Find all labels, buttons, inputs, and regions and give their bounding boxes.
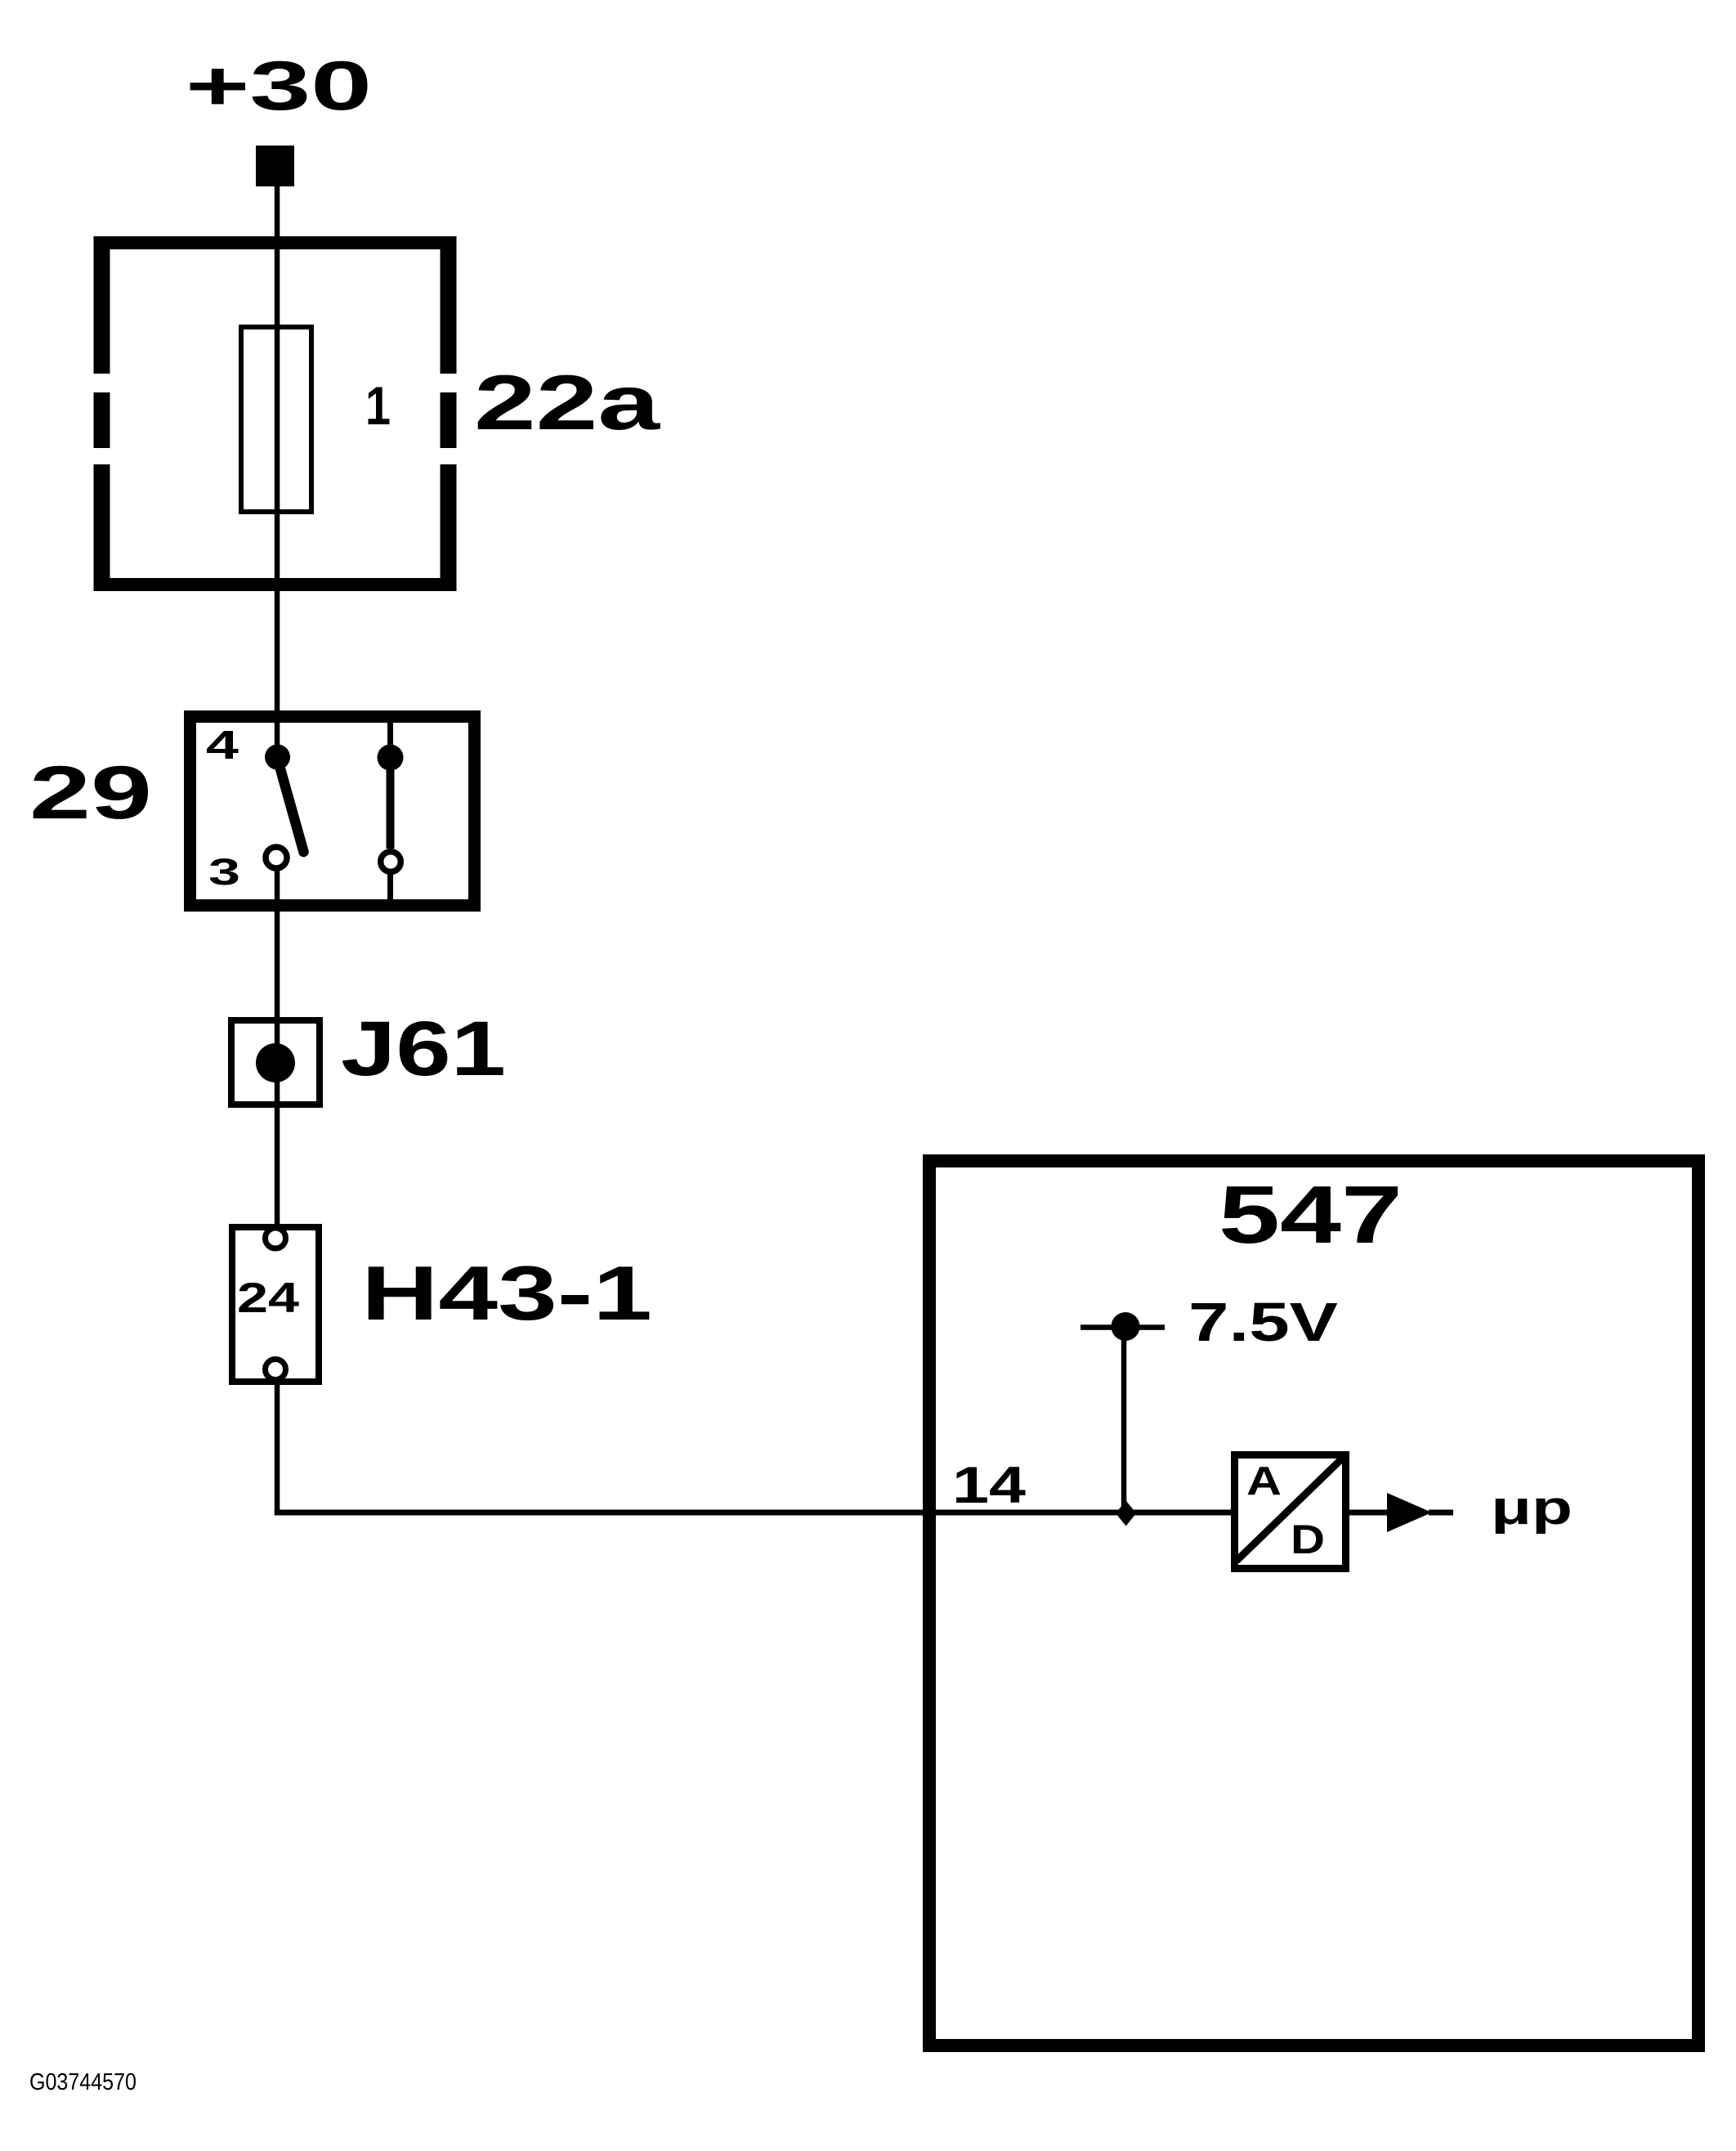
wire from A/D to arrow [1349,1510,1387,1516]
svg-text:3: 3 [208,851,240,893]
switch 29 box [190,717,475,906]
svg-text:29: 29 [29,751,152,835]
svg-text:J61: J61 [341,1006,506,1092]
second pole link bar [387,758,395,849]
pin 3 label [208,851,240,893]
wire from +30 terminal to fuse box [275,185,280,238]
svg-text:H43-1: H43-1 [361,1250,652,1336]
second pole open contact [381,852,401,872]
svg-text:μp: μp [1491,1481,1573,1535]
label H43-1 [361,1250,652,1336]
switch 29 label [29,751,152,835]
connector pin 24 label [237,1275,299,1322]
svg-text:1: 1 [365,375,391,436]
switch pin 4 contact dot [265,745,290,770]
svg-text:24: 24 [237,1275,299,1322]
battery positive terminal +30 [256,146,294,186]
control module 547 box [929,1161,1698,2046]
pin 4 label [206,724,239,768]
switch pin 3 open contact [266,847,287,868]
wire from 7.5V supply to signal node [1121,1326,1127,1508]
label J61 [341,1006,506,1092]
arrowhead to microprocessor [1387,1493,1432,1532]
pin 14 label [952,1457,1026,1514]
junction J61 dot [256,1043,295,1082]
svg-text:7.5V: 7.5V [1188,1292,1338,1353]
connector H43-1 top pin circle [266,1228,286,1248]
wire from J61 to connector H43-1 [275,1063,280,1226]
node +30 label [186,47,372,125]
svg-text:A: A [1246,1459,1282,1503]
second pole contact dot [378,745,404,771]
wire from H43-1 down to corner [275,1381,280,1515]
svg-text:G03744570: G03744570 [29,2069,136,2095]
svg-text:D: D [1291,1517,1325,1562]
wire stub after arrowhead [1429,1510,1453,1516]
A/D converter label A [1246,1459,1282,1503]
A/D converter label D [1291,1517,1325,1562]
connector H43-1 bottom pin circle [266,1360,286,1380]
svg-text:4: 4 [206,724,239,768]
second pole top stub wire [387,723,393,759]
A/D converter U1 box [1235,1455,1346,1569]
microprocessor label μp [1491,1481,1573,1535]
7.5V supply junction dot [1112,1312,1140,1341]
junction diamond on pin 14 wire [1116,1501,1136,1526]
fuse label 22a [474,360,661,446]
7.5V supply tick line [1081,1324,1165,1330]
svg-text:+30: +30 [186,47,372,125]
svg-text:547: 547 [1219,1169,1403,1261]
wire corner to module 547 pin 14 [275,1510,1233,1516]
fuse pin label 1 [365,375,391,436]
figure number G03744570 [29,2069,136,2095]
switch blade [278,759,304,852]
fuse box 22a (fuse panel outline, dashed) [94,236,457,591]
svg-text:22a: 22a [474,360,661,446]
svg-text:14: 14 [952,1457,1026,1514]
junction J61 box [231,1020,320,1105]
internal 7.5V supply label [1188,1292,1338,1353]
module label 547 [1219,1169,1403,1261]
second pole bottom stub wire [387,873,393,899]
wire from switch pin 3 to junction J61 [275,869,280,1068]
connector H43-1 box [232,1227,319,1382]
wire through fuse box down to switch contact [275,236,280,747]
fuse 1 element [241,327,311,512]
